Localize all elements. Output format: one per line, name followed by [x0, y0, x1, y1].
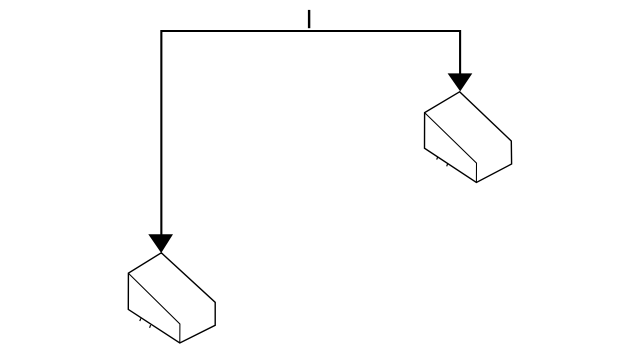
part: wedge block right (outline) [425, 92, 512, 183]
part: wedge block right (clip tab 2) [447, 164, 448, 167]
part: wedge block right (inner edges) [425, 113, 477, 183]
leader line (from left part up, across top, down to right part) [161, 31, 460, 236]
arrowhead left [148, 234, 173, 253]
part: wedge block left (clip tab 1) [140, 318, 141, 321]
part: wedge block left (outline) [128, 253, 215, 343]
arrowhead right [448, 73, 473, 91]
part: wedge block right (clip tab 1) [437, 157, 438, 160]
part: wedge block left (inner edges) [128, 273, 180, 343]
part: wedge block left (clip tab 2) [150, 325, 151, 328]
callout label 1 [308, 10, 310, 28]
